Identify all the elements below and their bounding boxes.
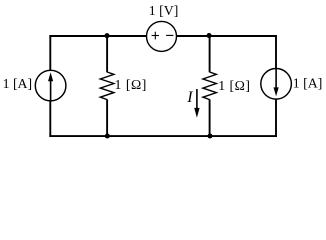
node dot: top right junction [207, 33, 212, 38]
svg-text:1 [V]: 1 [V] [149, 3, 179, 18]
svg-text:1 [Ω]: 1 [Ω] [218, 78, 250, 93]
current source I1 circle (left) [35, 70, 66, 101]
node dot: top left junction [104, 33, 109, 38]
wire: resistor R1 branch top lead [106, 35, 108, 72]
current source I1 arrow (up) [48, 72, 53, 100]
resistor R1 zigzag [100, 72, 114, 100]
svg-text:1 [A]: 1 [A] [293, 76, 323, 91]
wire: bottom rail [49, 135, 277, 137]
wire: resistor R2 branch top lead [209, 35, 211, 72]
current source I2 arrow (down) [274, 69, 279, 97]
wire: left vertical [49, 35, 51, 137]
wire: right vertical [275, 35, 277, 137]
current I arrow (down) [194, 89, 199, 118]
resistor R2 zigzag [203, 72, 216, 100]
voltage source V1 circle [147, 21, 177, 51]
voltage source V1 minus sign [166, 34, 173, 36]
svg-text:I: I [186, 89, 193, 106]
wire: top rail [49, 35, 277, 37]
current source I2 circle (right) [261, 69, 292, 100]
node dot: bottom right junction [207, 133, 212, 138]
node dot: bottom left junction [105, 133, 110, 138]
wire: resistor R1 branch bottom lead [106, 99, 108, 137]
svg-text:1 [Ω]: 1 [Ω] [115, 77, 147, 92]
svg-text:1 [A]: 1 [A] [3, 76, 33, 91]
wire: resistor R2 branch bottom lead [209, 99, 211, 137]
voltage source V1 plus sign [152, 32, 159, 40]
